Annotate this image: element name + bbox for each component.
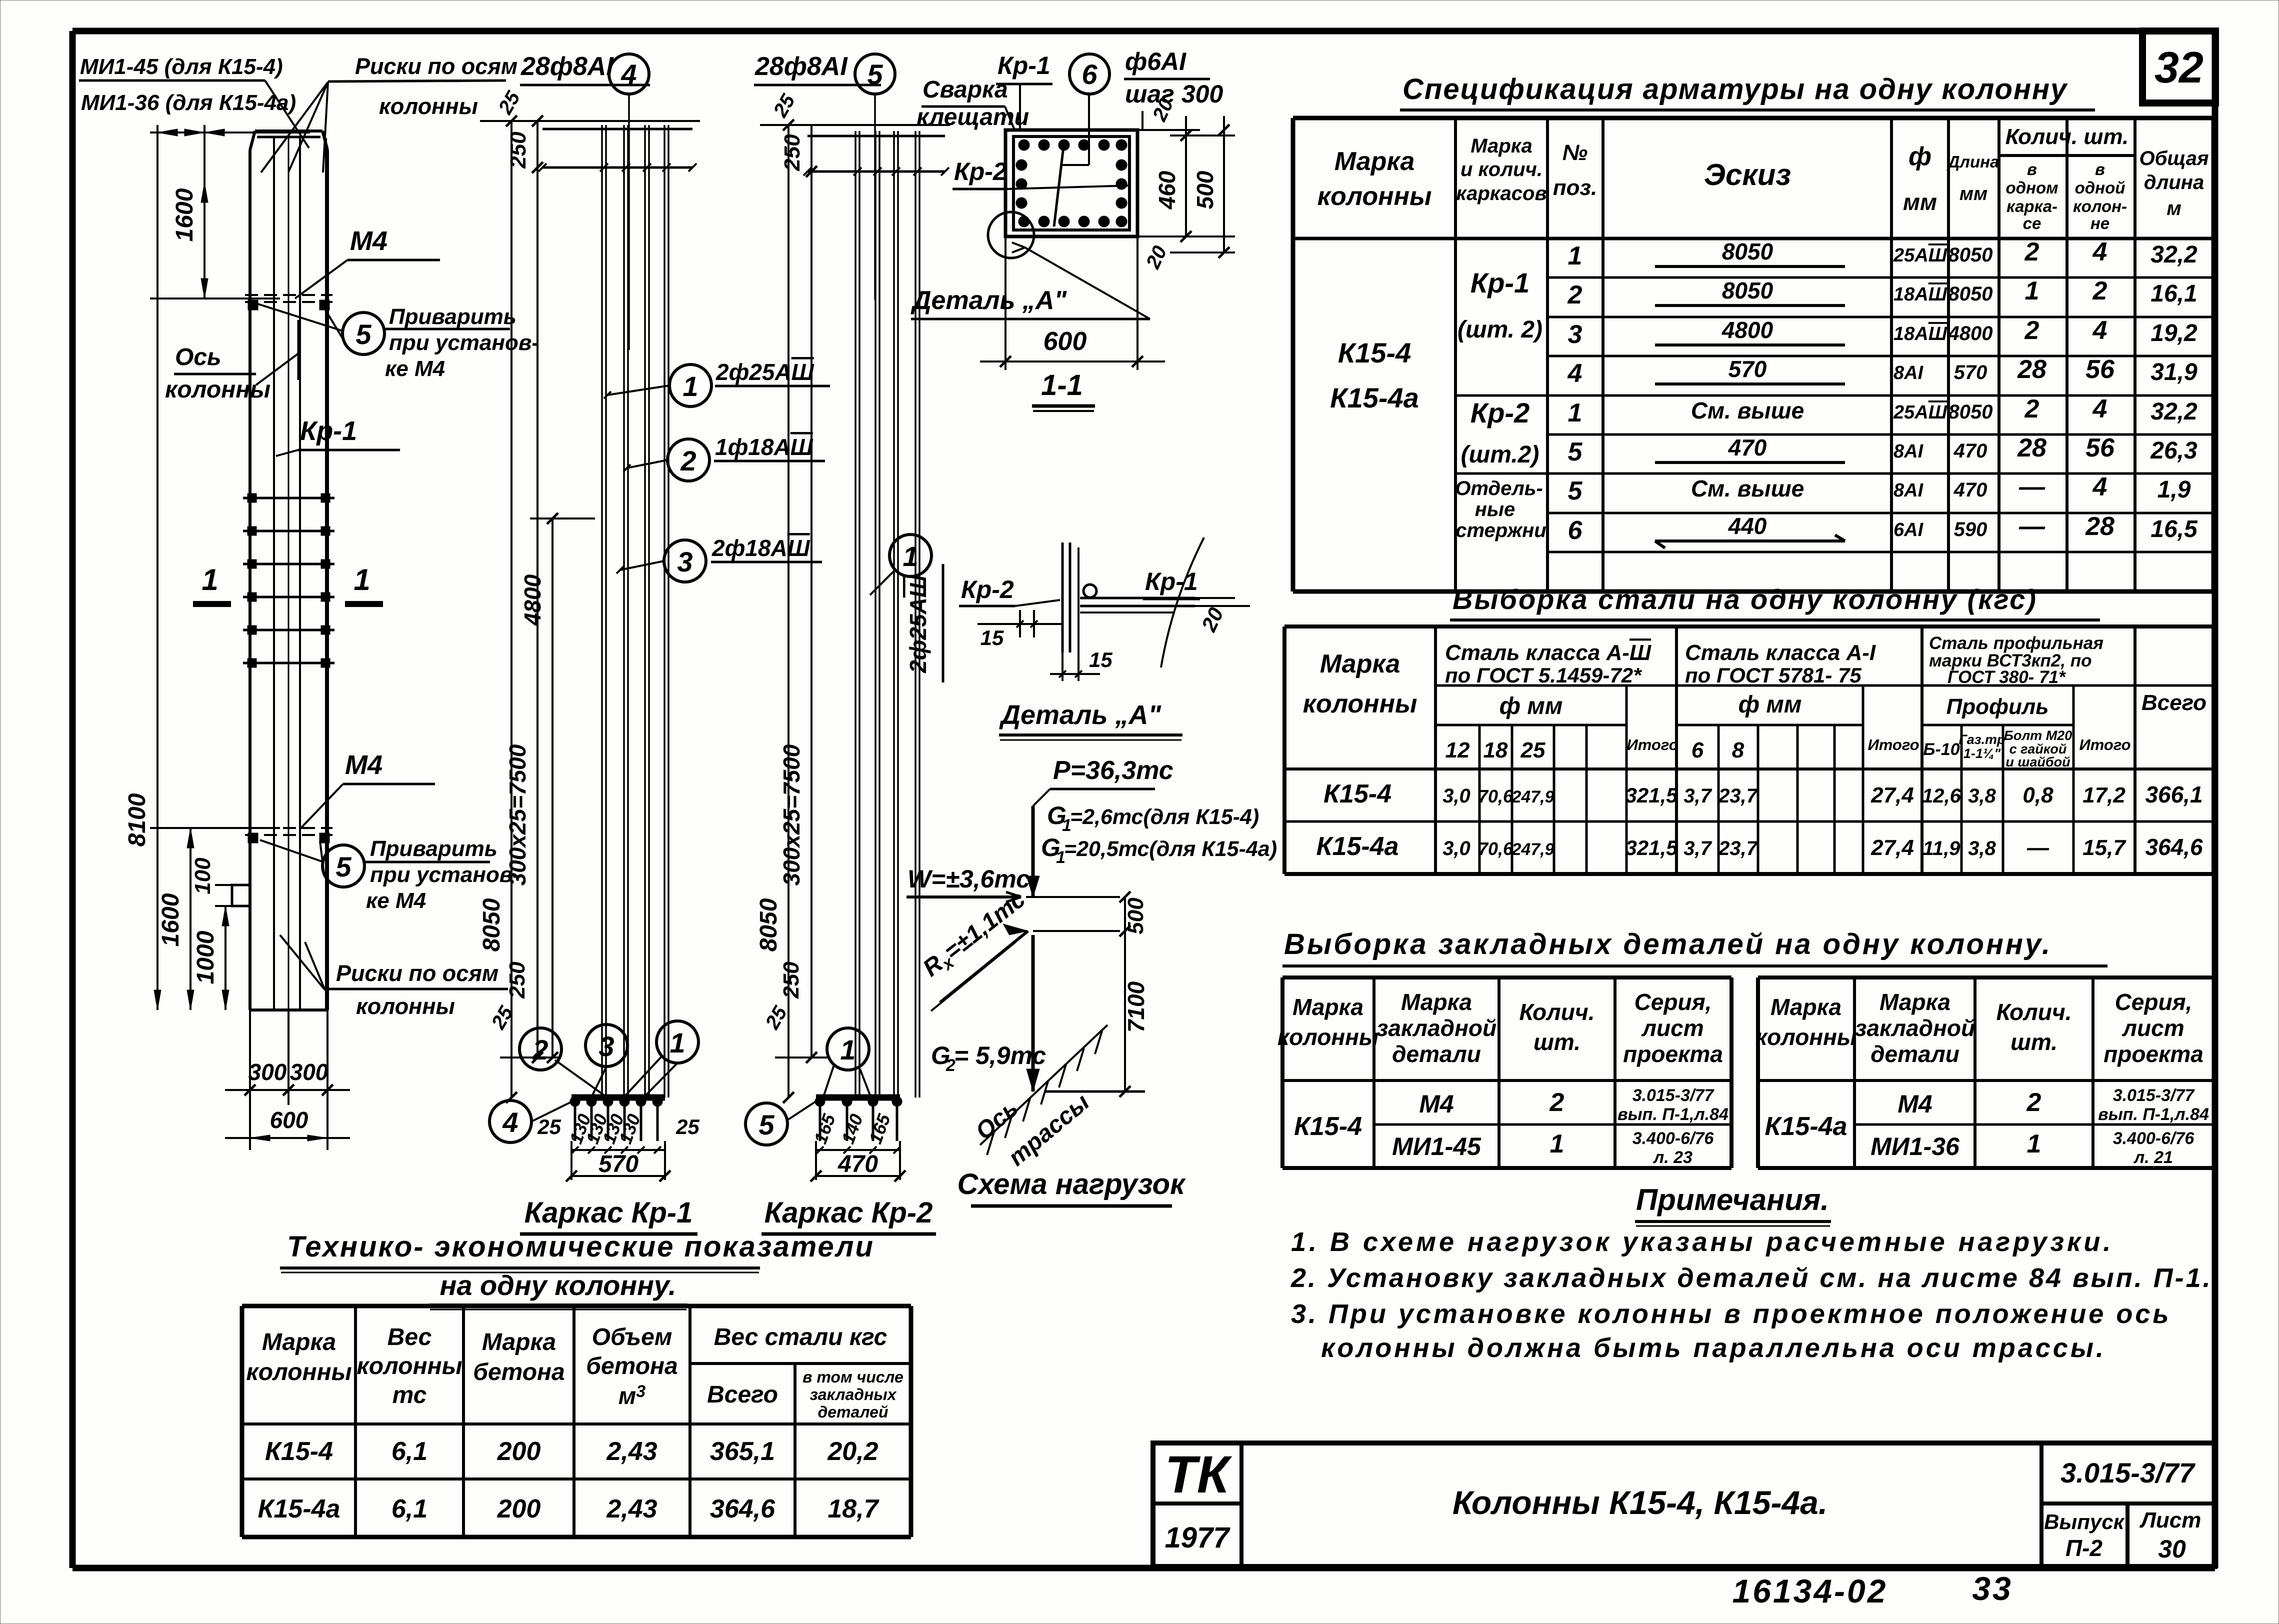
svg-text:3.400-6/76: 3.400-6/76 (2113, 1129, 2195, 1148)
svg-text:6: 6 (1081, 58, 1097, 90)
svg-text:25АШ: 25АШ (1893, 402, 1947, 423)
svg-text:6,1: 6,1 (391, 1494, 427, 1523)
svg-text:15: 15 (1089, 648, 1112, 671)
svg-text:3.015-3/77: 3.015-3/77 (1632, 1086, 1715, 1105)
svg-text:ф6АI: ф6АI (1125, 47, 1186, 75)
svg-text:МИ1-36 (для К15-4а): МИ1-36 (для К15-4а) (81, 90, 296, 115)
svg-text:мм: мм (1959, 183, 1987, 204)
svg-text:МИ1-36: МИ1-36 (1870, 1132, 1960, 1160)
svg-text:25: 25 (537, 1115, 561, 1138)
svg-text:300х25=7500: 300х25=7500 (504, 744, 530, 885)
svg-text:8050: 8050 (1722, 277, 1773, 303)
svg-text:Серия,: Серия, (2115, 989, 2192, 1015)
svg-text:Вес: Вес (387, 1324, 432, 1350)
svg-text:закладных: закладных (809, 1385, 896, 1403)
svg-text:Итого: Итого (2079, 736, 2130, 753)
svg-text:500: 500 (1123, 897, 1148, 934)
svg-text:См. выше: См. выше (1691, 475, 1804, 501)
svg-text:15: 15 (980, 626, 1004, 649)
svg-text:23,7: 23,7 (1718, 785, 1758, 807)
svg-text:30: 30 (2158, 1535, 2186, 1563)
svg-text:16,5: 16,5 (2150, 516, 2198, 542)
svg-text:Сталь класса А-Ш: Сталь класса А-Ш (1445, 640, 1651, 665)
svg-text:250: 250 (506, 131, 530, 169)
svg-text:28: 28 (2017, 355, 2046, 384)
svg-text:(шт.2): (шт.2) (1461, 441, 1539, 468)
svg-text:3,7: 3,7 (1683, 837, 1712, 859)
svg-text:1: 1 (682, 370, 698, 402)
svg-text:Эскиз: Эскиз (1704, 158, 1791, 191)
svg-text:8АI: 8АI (1893, 480, 1924, 501)
svg-text:16,1: 16,1 (2150, 280, 2197, 307)
svg-text:56: 56 (2085, 355, 2115, 384)
svg-text:590: 590 (1954, 518, 1987, 540)
svg-text:на одну колонну.: на одну колонну. (440, 1269, 676, 1301)
svg-text:—: — (2026, 835, 2049, 860)
svg-text:18АШ: 18АШ (1893, 284, 1947, 305)
svg-text:4: 4 (620, 58, 636, 90)
svg-text:К15-4а: К15-4а (258, 1494, 340, 1523)
svg-text:15,7: 15,7 (2082, 835, 2126, 860)
svg-text:Б-10: Б-10 (1923, 740, 1959, 759)
svg-text:в: в (2095, 160, 2105, 178)
svg-text:2ф25АШ: 2ф25АШ (715, 359, 814, 385)
svg-text:лист: лист (1641, 1015, 1703, 1041)
svg-text:колонны: колонны (1277, 1024, 1378, 1050)
svg-text:25: 25 (1520, 738, 1545, 762)
svg-text:8АI: 8АI (1893, 362, 1924, 383)
svg-text:Всего: Всего (2141, 690, 2206, 715)
svg-text:8: 8 (1732, 738, 1744, 762)
svg-text:460: 460 (1154, 170, 1180, 209)
svg-text:247,9: 247,9 (1511, 840, 1554, 859)
svg-text:Колич.: Колич. (1996, 999, 2072, 1025)
svg-text:4800: 4800 (1721, 317, 1773, 343)
svg-text:600: 600 (1043, 327, 1087, 356)
svg-text:2,43: 2,43 (606, 1494, 657, 1523)
svg-text:Спецификация арматуры на одн: Спецификация арматуры на одну колонну (1402, 73, 2068, 105)
svg-text:200: 200 (497, 1494, 541, 1523)
svg-text:колонны: колонны (165, 376, 270, 403)
svg-text:поз.: поз. (1553, 175, 1597, 200)
svg-text:детали: детали (1870, 1041, 1959, 1067)
svg-text:8050: 8050 (1948, 244, 1993, 266)
svg-text:колон-: колон- (2073, 197, 2127, 215)
svg-text:при установ-: при установ- (389, 330, 539, 355)
svg-text:3.400-6/76: 3.400-6/76 (1632, 1129, 1714, 1148)
svg-text:в: в (2027, 160, 2037, 178)
svg-text:М4: М4 (350, 226, 387, 256)
svg-text:К15-4а: К15-4а (1330, 382, 1419, 413)
svg-text:4800: 4800 (519, 574, 545, 626)
svg-text:Объем: Объем (592, 1324, 672, 1350)
svg-text:1: 1 (840, 1034, 855, 1065)
svg-text:детали: детали (1392, 1041, 1481, 1067)
svg-text:0,8: 0,8 (2022, 783, 2053, 807)
svg-text:колонны: колонны (1317, 182, 1432, 211)
svg-text:МИ1-45 (для К15-4): МИ1-45 (для К15-4) (80, 54, 283, 79)
svg-text:56: 56 (2085, 433, 2115, 462)
svg-text:33: 33 (1972, 1570, 2012, 1607)
svg-text:Р=36,3тс: Р=36,3тс (1053, 756, 1173, 785)
svg-text:28: 28 (2017, 433, 2046, 462)
svg-text:2: 2 (1567, 280, 1582, 309)
svg-text:2. Установку закладных детал: 2. Установку закладных деталей см. на ли… (1290, 1263, 2212, 1293)
svg-text:ные: ные (1475, 498, 1515, 520)
svg-text:Марка: Марка (482, 1329, 556, 1355)
svg-text:2,43: 2,43 (606, 1437, 657, 1466)
svg-text:3,0: 3,0 (1442, 837, 1470, 859)
svg-text:1977: 1977 (1164, 1521, 1230, 1554)
svg-text:32,2: 32,2 (2150, 398, 2197, 425)
svg-text:26,3: 26,3 (2150, 437, 2197, 464)
svg-text:1600: 1600 (171, 188, 198, 241)
svg-text:8050: 8050 (1948, 283, 1993, 305)
svg-text:18АШ: 18АШ (1893, 323, 1947, 344)
svg-text:Марка: Марка (1770, 994, 1841, 1020)
svg-text:1,9: 1,9 (2157, 476, 2191, 503)
svg-text:закладной: закладной (1855, 1015, 1975, 1041)
svg-text:Кр-1: Кр-1 (1145, 567, 1198, 595)
svg-text:5: 5 (335, 851, 351, 882)
svg-text:м: м (2166, 197, 2181, 219)
svg-text:600: 600 (270, 1107, 308, 1133)
svg-text:Серия,: Серия, (1634, 989, 1712, 1015)
svg-text:Профиль: Профиль (1946, 694, 2049, 719)
svg-text:5: 5 (1568, 437, 1583, 466)
svg-text:деталей: деталей (817, 1403, 888, 1421)
svg-text:300: 300 (248, 1059, 287, 1085)
svg-text:70,6: 70,6 (1478, 838, 1513, 859)
svg-text:= 5,9тс: = 5,9тс (954, 1041, 1046, 1069)
svg-text:Кр-2: Кр-2 (961, 575, 1014, 603)
svg-text:Каркас Кр-2: Каркас Кр-2 (764, 1196, 933, 1229)
svg-text:6АI: 6АI (1893, 519, 1924, 540)
svg-text:М4: М4 (1897, 1090, 1932, 1118)
svg-text:250: 250 (779, 961, 803, 999)
svg-text:М4: М4 (345, 750, 382, 780)
svg-text:8АI: 8АI (1893, 441, 1924, 462)
svg-text:Сталь класса А-I: Сталь класса А-I (1685, 640, 1876, 665)
svg-text:К15-4: К15-4 (1323, 779, 1391, 808)
svg-text:28ф8АI: 28ф8АI (520, 52, 614, 81)
svg-text:=2,6тс(для К15-4): =2,6тс(для К15-4) (1070, 805, 1259, 829)
svg-text:Лист: Лист (2139, 1508, 2201, 1532)
svg-text:См. выше: См. выше (1691, 397, 1804, 423)
svg-text:3: 3 (598, 1030, 614, 1062)
svg-text:2: 2 (2092, 276, 2107, 305)
svg-text:3. При установке колонны в: 3. При установке колонны в проектное пол… (1291, 1299, 2171, 1329)
svg-text:3,7: 3,7 (1683, 785, 1712, 807)
svg-text:л. 21: л. 21 (2133, 1148, 2173, 1167)
svg-text:—: — (2018, 472, 2045, 501)
svg-text:в том числе: в том числе (802, 1368, 903, 1386)
svg-text:Марка: Марка (1401, 989, 1472, 1015)
svg-text:470: 470 (837, 1151, 878, 1177)
svg-text:Ось: Ось (175, 344, 221, 370)
svg-text:тс: тс (392, 1382, 427, 1408)
svg-text:длина: длина (2144, 171, 2204, 193)
svg-text:№: № (1562, 140, 1587, 165)
svg-text:4800: 4800 (1948, 322, 1993, 344)
svg-text:Газ.тр: Газ.тр (1958, 732, 2005, 747)
svg-text:Примечания.: Примечания. (1636, 1183, 1829, 1216)
svg-text:колонны: колонны (356, 1353, 462, 1379)
svg-text:К15-4а: К15-4а (1765, 1112, 1847, 1141)
svg-text:25АШ: 25АШ (1893, 245, 1947, 266)
svg-text:4: 4 (2092, 472, 2107, 501)
svg-text:100: 100 (190, 857, 215, 894)
svg-text:мм: мм (1903, 189, 1937, 215)
svg-text:17,2: 17,2 (2082, 783, 2125, 807)
svg-text:при установ-: при установ- (370, 862, 520, 887)
svg-text:3: 3 (677, 546, 692, 577)
svg-text:70,6: 70,6 (1478, 786, 1513, 806)
svg-text:Приварить: Приварить (370, 836, 497, 861)
svg-text:1000: 1000 (192, 930, 219, 984)
svg-text:Деталь „А": Деталь „А" (910, 286, 1067, 315)
svg-text:лист: лист (2121, 1015, 2184, 1041)
svg-text:6,1: 6,1 (391, 1437, 427, 1466)
svg-text:2ф25АШ: 2ф25АШ (905, 574, 931, 673)
svg-text:570: 570 (598, 1151, 638, 1177)
svg-text:6: 6 (1568, 516, 1583, 545)
svg-text:570: 570 (1728, 356, 1767, 382)
svg-text:11,9: 11,9 (1923, 837, 1961, 859)
svg-text:и шайбой: и шайбой (2005, 754, 2070, 769)
svg-text:5: 5 (355, 318, 371, 350)
svg-text:К15-4: К15-4 (265, 1437, 333, 1466)
svg-text:вып. П-1,л.84: вып. П-1,л.84 (1617, 1105, 1728, 1124)
svg-text:5: 5 (867, 58, 883, 90)
svg-text:470: 470 (1953, 479, 1987, 501)
svg-text:Марка: Марка (1292, 994, 1363, 1020)
svg-text:бетона: бетона (586, 1353, 677, 1379)
svg-text:Длина: Длина (1946, 152, 1999, 171)
svg-text:ф: ф (1908, 142, 1931, 171)
svg-text:364,6: 364,6 (710, 1494, 775, 1523)
svg-text:2: 2 (2024, 394, 2039, 423)
svg-text:16134-02: 16134-02 (1732, 1572, 1888, 1609)
svg-text:МИ1-45: МИ1-45 (1392, 1132, 1481, 1160)
svg-text:Итого: Итого (1626, 736, 1678, 753)
svg-text:1: 1 (353, 563, 370, 596)
svg-text:К15-4: К15-4 (1294, 1112, 1362, 1141)
svg-text:проекта: проекта (2103, 1041, 2203, 1067)
svg-text:1: 1 (201, 563, 218, 596)
svg-text:Кр-1: Кр-1 (300, 416, 357, 446)
svg-text:1: 1 (1550, 1129, 1564, 1158)
svg-text:М4: М4 (1419, 1090, 1453, 1118)
svg-text:ке М4: ке М4 (385, 356, 445, 381)
svg-text:27,4: 27,4 (1870, 835, 1914, 860)
svg-text:2: 2 (680, 445, 696, 476)
svg-text:Вес стали кгс: Вес стали кгс (714, 1324, 887, 1350)
svg-text:18,7: 18,7 (827, 1494, 879, 1523)
svg-text:25: 25 (675, 1115, 699, 1138)
svg-text:5: 5 (1568, 476, 1583, 505)
svg-text:31,9: 31,9 (2150, 359, 2197, 385)
svg-text:Итого: Итого (1867, 736, 1919, 753)
svg-text:бетона: бетона (473, 1359, 564, 1385)
svg-text:(шт. 2): (шт. 2) (1457, 316, 1542, 343)
svg-text:колонны: колонны (379, 93, 478, 119)
svg-text:28ф8АI: 28ф8АI (754, 52, 848, 81)
svg-text:одной: одной (2075, 178, 2125, 197)
svg-text:5: 5 (758, 1109, 774, 1140)
svg-text:каркасов: каркасов (1456, 182, 1546, 204)
svg-text:1-1¼": 1-1¼" (1963, 746, 2001, 761)
svg-text:250: 250 (505, 961, 529, 999)
svg-text:3: 3 (1568, 320, 1582, 349)
svg-text:20,2: 20,2 (827, 1437, 878, 1466)
svg-text:=20,5тс(для К15-4а): =20,5тс(для К15-4а) (1064, 837, 1277, 861)
svg-text:Марка: Марка (262, 1329, 336, 1355)
svg-text:1: 1 (1568, 241, 1582, 270)
svg-text:4: 4 (502, 1106, 518, 1138)
svg-text:250: 250 (780, 134, 804, 171)
svg-text:1: 1 (2027, 1129, 2041, 1158)
svg-text:321,5: 321,5 (1625, 836, 1678, 859)
svg-text:Колич.: Колич. (1519, 999, 1595, 1025)
svg-text:К15-4: К15-4 (1338, 337, 1411, 368)
svg-text:П-2: П-2 (2065, 1535, 2102, 1561)
svg-text:2ф18АШ: 2ф18АШ (711, 535, 810, 561)
svg-text:—: — (2018, 512, 2045, 541)
svg-text:200: 200 (497, 1437, 541, 1466)
svg-text:300х25=7500: 300х25=7500 (778, 744, 804, 885)
svg-text:364,6: 364,6 (2145, 834, 2203, 860)
svg-text:Общая: Общая (2139, 147, 2208, 169)
svg-text:ф мм: ф мм (1738, 691, 1802, 718)
svg-text:32: 32 (2154, 42, 2203, 92)
svg-text:Марка: Марка (1470, 135, 1532, 157)
svg-text:247,9: 247,9 (1511, 787, 1554, 806)
svg-text:2: 2 (2024, 237, 2039, 266)
svg-text:3,0: 3,0 (1442, 785, 1470, 807)
svg-text:се: се (2023, 214, 2041, 232)
svg-text:8050: 8050 (1948, 401, 1993, 423)
svg-text:и колич.: и колич. (1460, 158, 1542, 180)
svg-text:Каркас Кр-1: Каркас Кр-1 (524, 1196, 693, 1229)
svg-text:Кр-2: Кр-2 (1470, 397, 1529, 428)
svg-text:8050: 8050 (1722, 238, 1773, 264)
svg-text:Сварка: Сварка (922, 76, 1008, 103)
svg-text:23,7: 23,7 (1718, 837, 1758, 859)
svg-text:3,8: 3,8 (1968, 785, 1996, 807)
svg-text:л. 23: л. 23 (1652, 1148, 1692, 1167)
svg-text:4: 4 (2092, 394, 2107, 423)
svg-text:колонны: колонны (246, 1359, 351, 1385)
svg-text:Болт М20: Болт М20 (2004, 728, 2072, 743)
svg-text:365,1: 365,1 (710, 1437, 775, 1466)
svg-text:570: 570 (1954, 361, 1987, 383)
svg-text:Колонны К15-4, К15-4а.: Колонны К15-4, К15-4а. (1452, 1484, 1827, 1521)
svg-text:2: 2 (2024, 316, 2039, 345)
svg-text:2: 2 (2026, 1088, 2041, 1117)
svg-text:4: 4 (2092, 316, 2107, 345)
svg-text:по ГОСТ 5.1459-72*: по ГОСТ 5.1459-72* (1445, 663, 1642, 687)
svg-text:Отдель-: Отдель- (1455, 477, 1543, 499)
svg-text:1600: 1600 (157, 893, 184, 946)
svg-text:6: 6 (1691, 738, 1704, 762)
svg-text:по ГОСТ 5781- 75: по ГОСТ 5781- 75 (1685, 663, 1861, 687)
svg-text:проекта: проекта (1623, 1041, 1723, 1067)
svg-text:колонны: колонны (356, 993, 455, 1019)
svg-text:1: 1 (902, 540, 918, 572)
svg-text:Марка: Марка (1879, 989, 1950, 1015)
svg-text:закладной: закладной (1376, 1015, 1496, 1041)
svg-text:карка-: карка- (2006, 197, 2057, 215)
svg-text:Деталь „А": Деталь „А" (999, 700, 1161, 730)
svg-text:Всего: Всего (707, 1381, 778, 1408)
svg-text:500: 500 (1192, 170, 1218, 209)
svg-text:3,8: 3,8 (1968, 837, 1996, 859)
svg-text:Риски по осям: Риски по осям (336, 960, 498, 986)
svg-text:1-1: 1-1 (1041, 369, 1083, 401)
svg-text:К15-4а: К15-4а (1316, 832, 1399, 861)
svg-text:27,4: 27,4 (1870, 783, 1914, 807)
svg-text:470: 470 (1953, 440, 1987, 462)
svg-text:Выпуск: Выпуск (2044, 1510, 2125, 1533)
svg-text:колонны: колонны (1303, 689, 1417, 718)
svg-text:ф мм: ф мм (1499, 693, 1563, 719)
svg-text:ке М4: ке М4 (366, 888, 426, 913)
svg-text:Риски по осям: Риски по осям (355, 53, 517, 79)
svg-text:3.015-3/77: 3.015-3/77 (2113, 1086, 2195, 1105)
svg-text:28: 28 (2085, 512, 2114, 541)
svg-text:Схема нагрузок: Схема нагрузок (957, 1168, 1186, 1200)
svg-text:12,6: 12,6 (1922, 785, 1961, 807)
svg-text:1: 1 (2025, 276, 2039, 305)
svg-text:1. В схеме нагрузок указаны: 1. В схеме нагрузок указаны расчетные на… (1291, 1227, 2113, 1257)
svg-text:не: не (2090, 214, 2109, 232)
svg-text:Выборка закладных деталей: Выборка закладных деталей на одну колонн… (1284, 928, 2052, 960)
svg-text:1: 1 (669, 1027, 685, 1058)
svg-text:4: 4 (1567, 359, 1582, 388)
svg-text:12: 12 (1445, 738, 1470, 762)
svg-text:19,2: 19,2 (2150, 320, 2197, 346)
svg-text:1: 1 (1568, 398, 1582, 427)
svg-text:8100: 8100 (124, 793, 150, 846)
svg-text:321,5: 321,5 (1625, 783, 1678, 807)
svg-text:колонны должна быть паралл: колонны должна быть параллельна оси трас… (1321, 1333, 2106, 1363)
svg-text:Сталь профильная: Сталь профильная (1929, 633, 2103, 653)
svg-text:366,1: 366,1 (2145, 781, 2202, 807)
svg-text:2: 2 (532, 1034, 548, 1065)
svg-text:колонны: колонны (1755, 1024, 1856, 1050)
svg-text:Кр-2: Кр-2 (954, 157, 1007, 185)
svg-text:Колич. шт.: Колич. шт. (2005, 124, 2129, 149)
svg-text:300: 300 (290, 1059, 328, 1085)
svg-text:ГОСТ 380- 71*: ГОСТ 380- 71* (1947, 667, 2066, 687)
svg-text:стержни: стержни (1455, 519, 1546, 541)
svg-text:4: 4 (2092, 237, 2107, 266)
svg-text:470: 470 (1728, 434, 1767, 460)
svg-text:440: 440 (1728, 513, 1767, 539)
svg-text:3.015-3/77: 3.015-3/77 (2060, 1457, 2196, 1488)
svg-text:вып. П-1,л.84: вып. П-1,л.84 (2098, 1105, 2209, 1124)
svg-text:шт.: шт. (1533, 1029, 1580, 1055)
svg-text:Марка: Марка (1334, 147, 1415, 176)
svg-text:Выборка стали на одну к: Выборка стали на одну колонну (кгс) (1452, 583, 2037, 615)
svg-text:Кр-1: Кр-1 (1470, 267, 1529, 298)
svg-text:8050: 8050 (755, 898, 782, 951)
svg-text:2: 2 (1549, 1088, 1564, 1117)
svg-text:8050: 8050 (478, 898, 505, 951)
svg-text:18: 18 (1483, 738, 1508, 762)
svg-text:32,2: 32,2 (2150, 241, 2197, 268)
